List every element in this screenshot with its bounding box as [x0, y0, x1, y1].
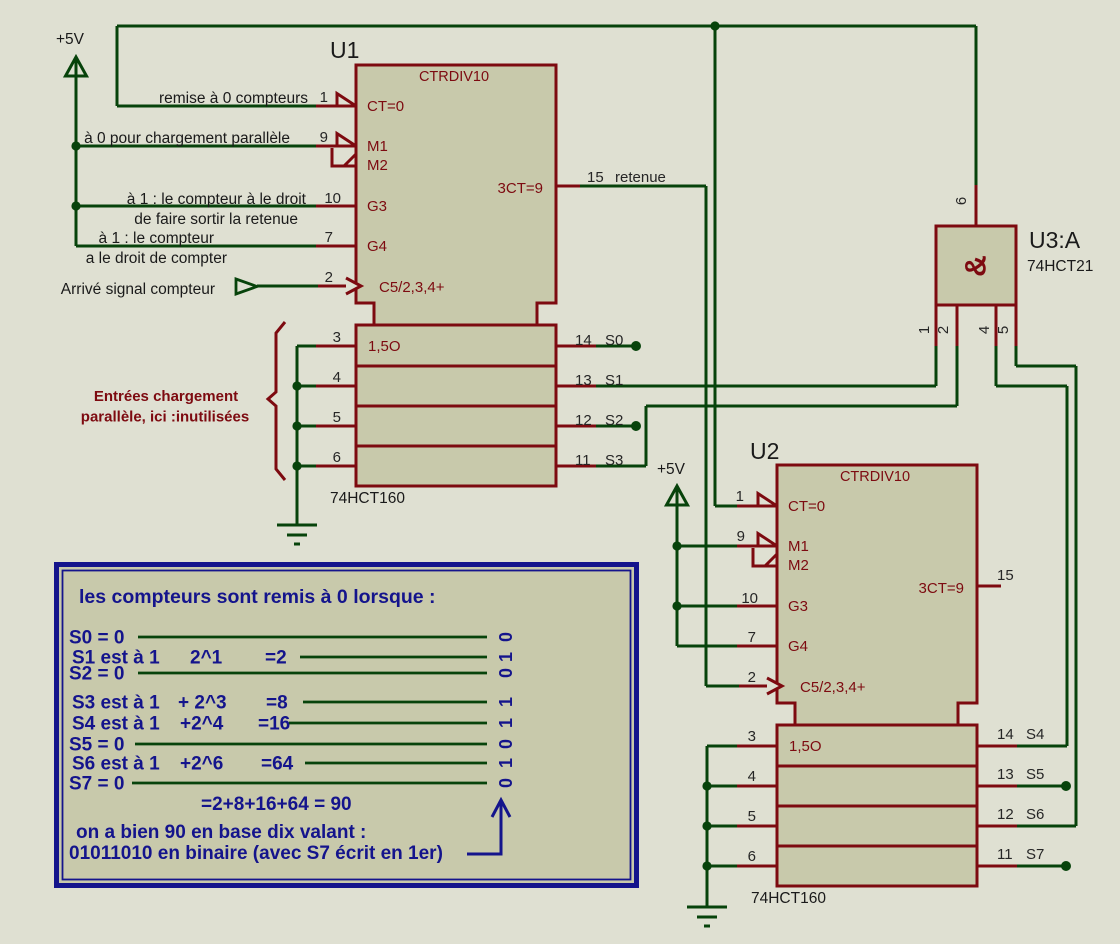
svg-text:G3: G3	[788, 598, 808, 615]
svg-text:parallèle, ici :inutilisées: parallèle, ici :inutilisées	[81, 409, 249, 426]
svg-text:11: 11	[575, 452, 591, 469]
svg-text:7: 7	[748, 629, 756, 646]
brace Entrees chargement	[268, 322, 285, 480]
svg-text:+2^6: +2^6	[180, 754, 223, 775]
power +5V symbol left	[56, 31, 87, 246]
svg-text:M1: M1	[788, 538, 809, 555]
wire +5V to U2 pin 7	[677, 645, 739, 648]
svg-text:1: 1	[736, 488, 744, 505]
svg-text:S3: S3	[605, 452, 623, 469]
svg-text:1: 1	[496, 652, 516, 662]
svg-text:01011010 en binaire (avec S7 é: 01011010 en binaire (avec S7 écrit en 1e…	[69, 843, 443, 864]
svg-text:S6 est à 1: S6 est à 1	[72, 754, 160, 775]
svg-text:remise à 0 compteurs: remise à 0 compteurs	[159, 90, 308, 107]
wire retenue: U1 pin15 to U2 pin 2 clock	[580, 185, 706, 188]
svg-text:S7: S7	[1026, 846, 1044, 863]
svg-text:14: 14	[997, 726, 1014, 743]
svg-text:2: 2	[325, 269, 333, 286]
svg-text:+5V: +5V	[56, 31, 85, 48]
svg-text:a le droit de compter: a le droit de compter	[86, 250, 227, 267]
wire U1 pin1 reset drop	[116, 26, 119, 106]
svg-text:S3 est à 1: S3 est à 1	[72, 693, 160, 714]
svg-text:13: 13	[997, 766, 1014, 783]
svg-text:2^1: 2^1	[190, 648, 223, 669]
svg-text:de faire sortir la retenue: de faire sortir la retenue	[134, 211, 298, 228]
U3 pin 6 stub	[975, 185, 978, 226]
svg-text:S0: S0	[605, 332, 623, 349]
svg-text:4: 4	[976, 326, 993, 334]
svg-text:=2: =2	[265, 648, 287, 669]
node rail pin6	[292, 461, 301, 470]
svg-text:U3:A: U3:A	[1029, 227, 1081, 253]
svg-text:12: 12	[575, 412, 592, 429]
svg-text:7: 7	[325, 229, 333, 246]
node U2 rail M1 junction	[672, 541, 681, 550]
svg-text:5: 5	[748, 808, 756, 825]
svg-text:10: 10	[741, 590, 758, 607]
ground symbol U1 rail	[277, 525, 317, 544]
node rail pin4	[292, 381, 301, 390]
svg-text:retenue: retenue	[615, 169, 666, 186]
U3 pin 5 stub	[1015, 305, 1018, 346]
svg-text:CTRDIV10: CTRDIV10	[419, 69, 489, 85]
counter U1 74HCT160	[316, 37, 596, 507]
svg-text:M1: M1	[367, 138, 388, 155]
svg-text:74HCT160: 74HCT160	[751, 890, 826, 907]
wire top rail down to U3 pin 6	[975, 26, 978, 186]
svg-text:S2: S2	[605, 412, 623, 429]
wire U3 pin 5 to S6	[1015, 344, 1018, 366]
node S5 end dot	[1061, 781, 1071, 791]
wire U1 parallel-load rail (pins 3,4,5,6) to ground	[297, 345, 318, 348]
svg-text:S0 = 0: S0 = 0	[69, 628, 124, 649]
node S2 end dot	[631, 421, 641, 431]
svg-text:U2: U2	[750, 438, 779, 464]
svg-text:1,5O: 1,5O	[789, 738, 822, 755]
wire junction down to U2 pin 1	[714, 26, 717, 506]
svg-text:M2: M2	[788, 557, 809, 574]
wire top +5V rail from reset node to U3 pin 6	[117, 25, 976, 28]
svg-text:10: 10	[324, 190, 341, 207]
svg-text:=8: =8	[266, 693, 288, 714]
wire clock input to U1 pin 2	[257, 285, 320, 288]
ground symbol U2 rail	[687, 907, 727, 926]
node U2 rail pin4	[702, 781, 711, 790]
svg-text:+5V: +5V	[657, 461, 686, 478]
node rail pin5	[292, 421, 301, 430]
node left rail G3 junction	[71, 201, 80, 210]
svg-text:1: 1	[496, 758, 516, 768]
svg-text:U1: U1	[330, 37, 359, 63]
svg-text:13: 13	[575, 372, 592, 389]
counter U2 74HCT160	[737, 438, 1017, 907]
node S0 end dot	[631, 341, 641, 351]
U3 pin 4 stub	[995, 305, 998, 346]
svg-text:S6: S6	[1026, 806, 1044, 823]
svg-text:C5/2,3,4+: C5/2,3,4+	[379, 279, 445, 296]
svg-text:=2+8+16+64 = 90: =2+8+16+64 = 90	[201, 794, 352, 815]
svg-text:Entrées chargement: Entrées chargement	[94, 388, 238, 405]
wire S2 stub	[594, 425, 636, 428]
svg-text:9: 9	[320, 129, 328, 146]
svg-text:&: &	[960, 255, 993, 277]
svg-text:S5 = 0: S5 = 0	[69, 735, 124, 756]
svg-text:1: 1	[496, 718, 516, 728]
svg-text:15: 15	[997, 567, 1014, 584]
svg-text:3CT=9: 3CT=9	[919, 580, 964, 597]
wire S0 stub	[594, 345, 636, 348]
svg-text:=16: =16	[258, 714, 290, 735]
svg-text:6: 6	[748, 848, 756, 865]
op-amp U3:A 74HCT21 AND gate	[916, 185, 1093, 346]
input terminal Arrive signal compteur	[236, 279, 257, 294]
svg-text:4: 4	[333, 369, 341, 386]
svg-text:S4: S4	[1026, 726, 1044, 743]
svg-text:3: 3	[333, 329, 341, 346]
node U2 rail pin6	[702, 861, 711, 870]
svg-text:CTRDIV10: CTRDIV10	[840, 469, 910, 485]
wire S5 stub	[1015, 785, 1066, 788]
wire +5V to U2 pin 10	[677, 605, 739, 608]
svg-text:0: 0	[496, 632, 516, 642]
wire +5V to U1 pin 7 G4	[76, 245, 318, 248]
wire +5V to U1 pin 9 M1	[76, 145, 318, 148]
wire U3 pin 4 to S4	[995, 344, 998, 386]
node S7 end dot	[1061, 861, 1071, 871]
svg-text:à 0 pour chargement parallèle: à 0 pour chargement parallèle	[84, 130, 290, 147]
svg-text:2: 2	[935, 326, 952, 334]
node left rail M1 junction	[71, 141, 80, 150]
wire +5V to U2 pin 9	[677, 545, 739, 548]
svg-text:on a bien 90 en base dix valan: on a bien 90 en base dix valant :	[76, 822, 366, 843]
svg-text:15: 15	[587, 169, 604, 186]
svg-text:S2 = 0: S2 = 0	[69, 664, 124, 685]
U3 pin 1 stub	[935, 305, 938, 346]
svg-text:14: 14	[575, 332, 592, 349]
svg-text:CT=0: CT=0	[367, 98, 404, 115]
svg-text:1: 1	[496, 697, 516, 707]
svg-text:1: 1	[916, 326, 933, 334]
svg-text:0: 0	[496, 778, 516, 788]
node junction top rail to U2	[710, 21, 719, 30]
svg-text:G4: G4	[788, 638, 808, 655]
svg-text:M2: M2	[367, 157, 388, 174]
svg-text:3CT=9: 3CT=9	[498, 180, 543, 197]
svg-text:3: 3	[748, 728, 756, 745]
svg-text:0: 0	[496, 739, 516, 749]
svg-text:CT=0: CT=0	[788, 498, 825, 515]
arrow pointer in box	[467, 800, 501, 854]
svg-text:S1: S1	[605, 372, 623, 389]
wire U2 parallel-load rail to ground	[707, 745, 739, 748]
node U2 rail G3 junction	[672, 601, 681, 610]
svg-text:1,5O: 1,5O	[368, 338, 401, 355]
svg-text:S5: S5	[1026, 766, 1044, 783]
svg-text:0: 0	[496, 668, 516, 678]
svg-text:G4: G4	[367, 238, 387, 255]
svg-text:6: 6	[953, 197, 970, 205]
svg-text:6: 6	[333, 449, 341, 466]
svg-text:12: 12	[997, 806, 1014, 823]
svg-text:+ 2^3: + 2^3	[178, 693, 227, 714]
svg-text:74HCT160: 74HCT160	[330, 490, 405, 507]
svg-text:S7 = 0: S7 = 0	[69, 774, 124, 795]
svg-text:9: 9	[737, 528, 745, 545]
wire +5V to U1 pin 10 G3	[76, 205, 318, 208]
svg-text:G3: G3	[367, 198, 387, 215]
svg-text:à 1 : le compteur à le droit: à 1 : le compteur à le droit	[127, 191, 307, 208]
svg-text:à 1 : le compteur: à 1 : le compteur	[99, 230, 214, 247]
svg-text:=64: =64	[261, 754, 294, 775]
svg-text:2: 2	[748, 669, 756, 686]
svg-text:+2^4: +2^4	[180, 714, 224, 735]
svg-text:4: 4	[748, 768, 756, 785]
wire S7 stub	[1015, 865, 1066, 868]
svg-text:11: 11	[997, 846, 1013, 863]
svg-text:5: 5	[333, 409, 341, 426]
svg-text:C5/2,3,4+: C5/2,3,4+	[800, 679, 866, 696]
power +5V symbol U2	[657, 461, 688, 646]
svg-text:les compteurs sont remis à 0 l: les compteurs sont remis à 0 lorsque :	[79, 586, 436, 608]
svg-text:Arrivé signal compteur: Arrivé signal compteur	[61, 281, 215, 298]
U3 pin 2 stub	[956, 305, 959, 346]
wire S3 to U3 pin 2	[594, 465, 646, 468]
wire S1 to U3 pin 1	[594, 385, 936, 388]
node U2 rail pin5	[702, 821, 711, 830]
svg-text:1: 1	[320, 89, 328, 106]
svg-text:S4 est à 1: S4 est à 1	[72, 714, 160, 735]
svg-text:74HCT21: 74HCT21	[1027, 258, 1093, 275]
annotation box: les compteurs sont remis a 0 lorsque	[57, 565, 637, 886]
svg-text:5: 5	[995, 326, 1012, 334]
